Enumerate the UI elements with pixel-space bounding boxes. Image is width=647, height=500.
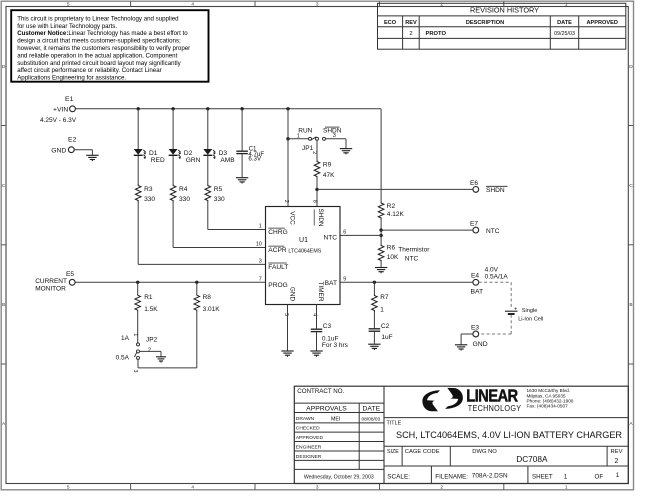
- svg-text:however, it remains the custom: however, it remains the customers respon…: [17, 45, 190, 52]
- svg-text:B: B: [2, 302, 5, 308]
- svg-text:DRAWN: DRAWN: [296, 416, 315, 422]
- svg-text:B: B: [629, 302, 632, 308]
- svg-text:8: 8: [311, 200, 317, 203]
- svg-text:4.12K: 4.12K: [387, 211, 405, 218]
- svg-text:7: 7: [259, 276, 262, 282]
- svg-text:4.25V - 6.3V: 4.25V - 6.3V: [40, 117, 77, 124]
- svg-text:D3: D3: [219, 150, 228, 157]
- svg-text:TECHNOLOGY: TECHNOLOGY: [468, 403, 522, 413]
- svg-text:MEI: MEI: [331, 417, 340, 423]
- svg-text:R4: R4: [179, 186, 188, 193]
- svg-text:ENGINEER: ENGINEER: [296, 445, 322, 451]
- svg-text:D: D: [629, 64, 633, 70]
- svg-text:D: D: [2, 64, 6, 70]
- svg-text:0.5A/1A: 0.5A/1A: [485, 274, 509, 281]
- svg-text:1: 1: [565, 2, 568, 8]
- svg-text:GND: GND: [473, 341, 488, 348]
- svg-text:5: 5: [67, 2, 70, 8]
- svg-text:C2: C2: [381, 323, 390, 330]
- svg-text:REV: REV: [405, 20, 417, 26]
- svg-text:DESIGNER: DESIGNER: [296, 454, 322, 460]
- svg-text:2: 2: [311, 151, 317, 154]
- svg-text:D2: D2: [184, 150, 193, 157]
- svg-text:TITLE: TITLE: [387, 420, 402, 426]
- svg-text:BAT: BAT: [325, 280, 337, 287]
- svg-text:08/08/03: 08/08/03: [362, 416, 381, 422]
- svg-text:APPROVALS: APPROVALS: [306, 406, 347, 413]
- svg-text:47K: 47K: [323, 172, 335, 179]
- svg-text:4.0V: 4.0V: [485, 267, 499, 274]
- svg-text:E1: E1: [65, 96, 74, 103]
- svg-text:C3: C3: [323, 323, 332, 330]
- svg-text:CHRG: CHRG: [268, 229, 287, 236]
- svg-text:RED: RED: [151, 157, 165, 164]
- svg-text:CAGE CODE: CAGE CODE: [405, 449, 440, 455]
- svg-text:ACPR: ACPR: [268, 247, 287, 254]
- svg-text:SHEET: SHEET: [532, 473, 553, 480]
- svg-text:E4: E4: [471, 273, 479, 280]
- svg-text:10: 10: [256, 242, 262, 248]
- svg-text:1: 1: [132, 333, 138, 336]
- svg-text:6: 6: [343, 230, 346, 236]
- svg-text:1: 1: [564, 474, 568, 481]
- svg-text:LTC4064EMS: LTC4064EMS: [288, 249, 321, 255]
- svg-text:APPROVED: APPROVED: [296, 435, 324, 441]
- svg-text:CURRENT: CURRENT: [35, 278, 67, 285]
- svg-text:R5: R5: [214, 186, 223, 193]
- svg-text:Single: Single: [522, 308, 538, 314]
- svg-text:3: 3: [316, 485, 319, 491]
- svg-text:CONTRACT NO.: CONTRACT NO.: [297, 388, 344, 395]
- svg-text:4: 4: [191, 485, 194, 491]
- svg-text:R1: R1: [144, 294, 153, 301]
- svg-text:affect circuit performance or: affect circuit performance or reliabilit…: [17, 67, 161, 74]
- svg-text:design a circuit that meets cu: design a circuit that meets customer-sup…: [17, 38, 181, 45]
- svg-text:3.01K: 3.01K: [203, 306, 221, 313]
- svg-text:NTC: NTC: [405, 255, 419, 262]
- svg-text:MONITOR: MONITOR: [35, 285, 66, 292]
- svg-text:NTC: NTC: [486, 228, 500, 235]
- svg-text:+VIN: +VIN: [53, 106, 68, 113]
- svg-text:JP2: JP2: [146, 337, 158, 344]
- svg-text:E7: E7: [470, 220, 478, 227]
- svg-text:1: 1: [259, 224, 262, 230]
- svg-text:1: 1: [380, 306, 384, 313]
- svg-text:Li-Ion Cell: Li-Ion Cell: [518, 317, 543, 323]
- svg-text:DESCRIPTION: DESCRIPTION: [466, 20, 504, 26]
- svg-text:6.3V: 6.3V: [248, 155, 262, 162]
- svg-text:0.5A: 0.5A: [116, 354, 130, 361]
- svg-text:1: 1: [616, 472, 620, 479]
- svg-text:1A: 1A: [121, 335, 130, 342]
- svg-text:TIMER: TIMER: [317, 282, 324, 302]
- svg-text:3: 3: [132, 370, 138, 373]
- svg-text:2: 2: [440, 485, 443, 491]
- svg-text:2: 2: [615, 458, 619, 465]
- svg-text:REV: REV: [611, 449, 623, 455]
- svg-text:ECO: ECO: [384, 20, 397, 26]
- svg-text:Applications Engineering for a: Applications Engineering for assistance.: [17, 75, 126, 82]
- svg-text:DATE: DATE: [557, 20, 572, 26]
- svg-text:Fax: (408)434-0507: Fax: (408)434-0507: [527, 404, 569, 409]
- svg-text:OF: OF: [595, 473, 604, 480]
- svg-text:This circuit is proprietary to: This circuit is proprietary to Linear Te…: [17, 15, 179, 22]
- svg-text:Customer Notice:Linear Technol: Customer Notice:Linear Technology has ma…: [17, 30, 188, 37]
- svg-text:5: 5: [67, 485, 70, 491]
- svg-text:2: 2: [148, 347, 151, 353]
- svg-text:3: 3: [259, 258, 262, 264]
- svg-text:330: 330: [179, 196, 190, 203]
- svg-text:BAT: BAT: [471, 289, 484, 296]
- svg-text:SHDN: SHDN: [486, 187, 505, 194]
- svg-text:R7: R7: [380, 294, 389, 301]
- svg-text:1uF: 1uF: [381, 334, 392, 341]
- svg-text:D1: D1: [149, 150, 158, 157]
- svg-text:C: C: [629, 183, 633, 189]
- svg-text:10K: 10K: [387, 254, 399, 261]
- svg-text:SCALE:: SCALE:: [387, 473, 410, 480]
- svg-text:NTC: NTC: [323, 234, 337, 241]
- svg-text:R6: R6: [387, 245, 396, 252]
- svg-text:GND: GND: [289, 287, 296, 302]
- svg-text:APPROVED: APPROVED: [586, 20, 617, 26]
- svg-text:1.5K: 1.5K: [144, 306, 158, 313]
- svg-text:PROTO: PROTO: [426, 31, 447, 37]
- svg-text:Wednesday, October 29, 2003: Wednesday, October 29, 2003: [304, 475, 374, 481]
- svg-text:AMB: AMB: [220, 157, 235, 164]
- svg-text:708A-2.DSN: 708A-2.DSN: [472, 473, 508, 480]
- svg-text:R2: R2: [387, 203, 396, 210]
- svg-text:C: C: [2, 183, 6, 189]
- svg-text:Thermistor: Thermistor: [398, 246, 430, 253]
- svg-text:For 3 hrs: For 3 hrs: [322, 342, 349, 349]
- svg-text:GND: GND: [51, 147, 66, 154]
- svg-text:DATE: DATE: [362, 406, 380, 413]
- svg-text:9: 9: [343, 276, 346, 282]
- svg-text:09/25/03: 09/25/03: [554, 31, 575, 37]
- svg-text:4: 4: [191, 2, 194, 8]
- svg-text:E3: E3: [471, 325, 479, 332]
- svg-text:2: 2: [283, 200, 289, 203]
- svg-text:E5: E5: [66, 271, 74, 278]
- svg-text:CHECKED: CHECKED: [296, 426, 320, 432]
- svg-text:U1: U1: [299, 237, 308, 244]
- svg-text:R9: R9: [323, 162, 332, 169]
- svg-text:PROG: PROG: [268, 282, 287, 289]
- svg-text:1: 1: [297, 134, 300, 140]
- svg-text:SCH, LTC4064EMS, 4.0V LI-ION B: SCH, LTC4064EMS, 4.0V LI-ION BATTERY CHA…: [396, 430, 622, 440]
- svg-text:SIZE: SIZE: [387, 449, 399, 455]
- svg-text:2: 2: [409, 31, 412, 37]
- svg-text:E6: E6: [470, 180, 478, 187]
- svg-text:2: 2: [440, 2, 443, 8]
- svg-text:E2: E2: [68, 137, 77, 144]
- svg-text:and reliable operation in the: and reliable operation in the actual app…: [17, 52, 177, 59]
- svg-text:REVISION HISTORY: REVISION HISTORY: [470, 5, 539, 14]
- svg-text:substitution and printed circu: substitution and printed circuit board l…: [17, 60, 181, 67]
- svg-text:R3: R3: [144, 186, 153, 193]
- svg-text:FAULT: FAULT: [268, 264, 288, 271]
- svg-text:GRN: GRN: [186, 157, 201, 164]
- svg-text:3: 3: [316, 2, 319, 8]
- svg-text:1: 1: [565, 485, 568, 491]
- svg-text:VCC: VCC: [289, 211, 296, 225]
- svg-text:RUN: RUN: [298, 128, 312, 135]
- svg-text:SHDN: SHDN: [317, 208, 324, 226]
- svg-text:+: +: [514, 306, 517, 312]
- svg-text:330: 330: [144, 196, 155, 203]
- svg-text:DWG NO: DWG NO: [472, 449, 497, 455]
- svg-text:R8: R8: [203, 294, 212, 301]
- svg-text:3: 3: [333, 133, 336, 139]
- svg-text:DC708A: DC708A: [516, 454, 548, 464]
- svg-text:for use with Linear Technology: for use with Linear Technology parts.: [17, 23, 117, 30]
- svg-text:FILENAME:: FILENAME:: [435, 473, 468, 480]
- svg-text:330: 330: [214, 196, 225, 203]
